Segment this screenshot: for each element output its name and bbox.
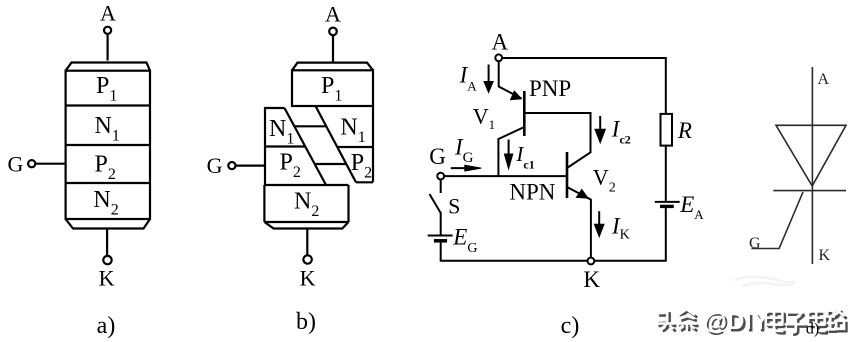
svg-text:a): a) [97,313,116,339]
terminal A circle (a) [104,27,111,34]
battery EA long plate [655,201,680,203]
V2 base bar [566,152,569,198]
N2 bottom lid (b) [264,222,348,229]
terminal K node circle (c) [588,258,595,265]
terminal K circle (b) [303,255,311,263]
terminal K lead (b) [306,229,308,256]
watermark white face layer [656,308,844,335]
current arrow Ic1 [504,140,512,169]
svg-text:NPN: NPN [509,180,555,205]
channel crossing upper (b) [294,125,326,127]
body top lid (a) [66,63,150,71]
V2 emitter wire [567,187,591,258]
V1 emitter arrowhead (PNP, points to base) [510,90,523,100]
body bottom lid (a) [66,219,150,229]
divider N1/P2 (a) [66,144,150,146]
triangle (d) [776,125,846,186]
battery EA short plate [660,205,674,208]
N2 box sides (b) [264,185,348,222]
divider P1/N1 (a) [66,104,150,106]
current arrow IK [594,211,604,237]
divider P2/N2 (a) [66,182,150,184]
svg-text:K: K [99,265,115,290]
terminal A circle (c) [495,54,502,61]
wire EA to bottom [595,208,666,261]
svg-text:PNP: PNP [529,76,571,101]
terminal G circle (c) [437,173,444,180]
wire EG up to switch [440,212,442,236]
terminal K lead (a) [106,229,108,256]
right block right edge (b) [372,106,374,182]
bottom wire K to EG branch [441,242,588,261]
svg-text:G: G [429,144,446,169]
gate wire (a) [35,163,65,165]
V2 emitter arrowhead (NPN, points out) [576,189,590,199]
P1 box (b) [292,70,373,106]
svg-text:c): c) [561,313,580,339]
current arrow Ic2 [595,116,605,143]
wire R to battery EA [665,146,667,202]
battery EG short plate [434,239,447,243]
svg-text:A: A [100,1,116,26]
left block outline (b) [265,108,285,185]
diagonal A (b) [285,108,327,185]
resistor R body [661,114,673,146]
svg-text:K: K [819,247,831,264]
svg-text:G: G [207,153,223,178]
divider left N1/P2 (b) [265,145,305,147]
svg-text:S: S [448,194,460,219]
V1 collector wire [498,127,524,176]
wire A to right branch top [502,58,666,114]
channel crossing lower (b) [315,163,347,165]
terminal G circle (a) [28,160,35,167]
svg-text:G: G [749,235,761,252]
right block bottom edge (b) [356,181,373,183]
diagonal B (b) [316,106,357,182]
V1 base wire to V2 collector [524,113,590,168]
terminal A lead (b) [332,36,334,63]
svg-text:K: K [583,267,600,292]
terminal G circle (b) [228,162,235,169]
wire switch to G circle [440,180,442,193]
switch S blade [430,194,441,213]
terminal A circle (b) [329,28,337,36]
divider right N1/P2 (b) [337,146,373,148]
current arrow IG [451,165,481,171]
P1 top lid (b) [292,63,373,71]
N2 top edge (b) [265,184,349,186]
svg-text:R: R [677,118,692,143]
anode-cathode vertical line (d) [811,67,813,264]
cathode bar (d) [773,190,846,192]
svg-text:A: A [491,30,508,55]
svg-text:b): b) [296,309,316,335]
terminal A lead (a) [106,35,108,61]
svg-text:A: A [325,2,341,27]
terminal K circle (a) [103,256,111,264]
V1 base bar [523,91,526,136]
faint erased-text smudge [735,277,795,286]
wire A down to V1 emitter [499,61,522,98]
svg-text:K: K [300,265,316,290]
gate wire to V2 base [444,175,566,177]
battery EG long plate [428,235,453,237]
watermark shadow layer [659,310,847,337]
svg-text:A: A [818,71,830,88]
body box (a) [66,71,150,219]
current arrow IA [484,65,493,93]
gate wire (b) [236,165,265,167]
svg-text:d): d) [806,321,819,338]
gate lead (d) [752,192,804,249]
svg-text:G: G [8,152,24,177]
